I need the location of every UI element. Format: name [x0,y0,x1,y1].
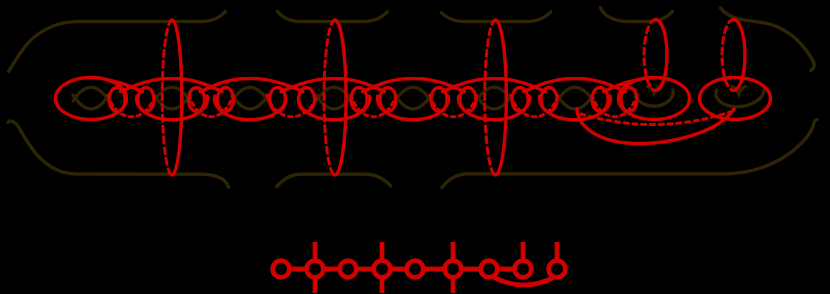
graph edge 6-7 [461,267,480,272]
graph node 3 [340,261,357,278]
short handle loop (front) at hole x=655.5 [656,20,667,91]
crossing arc from circle 1 over neck 1-2 [106,80,143,92]
attaching circle around hole 2 (lower cup) [137,96,208,120]
handle loop (back, dashed) at hole x=172 [162,20,172,175]
attaching circle around hole 6 (top, ends crossing necks) [443,79,546,92]
surface outline: bottom-left segment [8,121,229,187]
attaching circle around hole 5 (lower cup) [378,96,449,120]
graph tick below node x=453 [451,277,456,293]
hole 1 [73,87,109,101]
attaching circle around hole 4 (lower cup) [299,96,370,120]
graph node 2 [307,261,324,278]
linking ring at neck 6-7 right [541,88,557,112]
attaching circle around hole 7 (lower cup) [540,96,611,120]
graph node 5 [407,261,424,278]
attaching circle around hole 8 [619,78,690,120]
graph tick below node x=315 [313,277,318,293]
short handle loop (back, dashed) at hole x=655.5 [644,20,655,91]
short handle loop (front) at hole x=733.5 [734,20,745,91]
graph arc node7 to node9 [493,277,554,286]
surface outline: top segment 2 [277,12,387,22]
dashed back arc at neck 2-3 [189,95,233,117]
graph edge 7-8 [497,267,514,272]
handle loop (front) at hole x=172 [172,20,182,175]
linking ring at neck 3-4 right [299,88,315,112]
linking ring at neck 3-4 left [270,88,286,112]
graph tick above node x=382 [380,242,385,261]
handle loop (back, dashed) at hole x=335 [324,20,335,175]
graph node 9 [549,261,566,278]
hole 4 [316,87,352,101]
hole 9 [716,90,764,107]
linking ring at neck 7-8 right [621,88,637,112]
graph edge 2-3 [323,267,339,272]
hole 6 [476,87,512,101]
linking ring at neck 7-8 left [592,88,608,112]
attaching circle around hole 2 (top, ends crossing necks) [121,79,223,92]
dashed back arc at neck 1-2 [108,95,155,117]
surface outline: right cap bottom piece [442,120,817,188]
surface outline: top-left segment [9,12,226,72]
linking ring at neck 1-2 left [109,88,125,112]
graph tick above node x=315 [313,242,318,261]
dashed back arc at neck 6-7 [511,95,558,117]
linking ring at neck 2-3 left [189,88,205,112]
graph node 7 [481,261,498,278]
attaching circle around hole 7 (top, ends crossing necks) [524,79,626,92]
graph tick above node x=523 [521,242,526,261]
graph edge 4-5 [390,267,406,272]
linking ring at neck 5-6 left [431,88,447,112]
graph edge 3-4 [356,267,373,272]
hole 3 [232,87,268,101]
hole 8 [636,90,674,106]
hole 5 [395,87,431,101]
crossing arc from circle 8 over neck 7-8 [604,80,640,92]
linking ring at neck 1-2 right [138,88,154,112]
linking ring at neck 4-5 right [380,88,396,112]
attaching circle around hole 1 [56,78,127,120]
handle loop (front) at hole x=495.5 [496,20,507,175]
hole 2 [154,87,190,101]
graph node 1 [273,261,290,278]
hole 7 [557,87,593,101]
dashed back arc at neck 5-6 [430,95,477,117]
attaching circle around hole 4 (top, ends crossing necks) [281,79,385,92]
linking ring at neck 2-3 right [218,88,234,112]
attaching circle around hole 6 (lower cup) [459,96,530,120]
surface outline: top segment 4 [600,8,672,22]
dashed back arc at neck 7-8 [592,95,637,117]
handle loop (front) at hole x=335 [335,20,346,175]
surface outline: bottom segment 2 [277,174,391,186]
attaching circle around hole 3 (lower cup) [215,96,286,120]
dashed back arc at neck 4-5 [351,95,396,117]
graph tick above node x=557 [555,242,560,261]
graph node 6 [445,261,462,278]
surface outline: top segment 3 [441,12,551,22]
linking ring at neck 5-6 right [460,88,476,112]
graph tick below node x=382 [380,277,385,293]
long circle linking holes 7 and 9 (back, dashed) [581,112,730,125]
attaching circle around hole 3 (top, ends crossing necks) [200,79,303,92]
attaching circle around hole 5 (top, ends crossing necks) [363,79,465,92]
graph node 8 [515,261,532,278]
attaching circle around hole 9 [700,78,771,120]
linking ring at neck 6-7 left [512,88,528,112]
graph node 4 [374,261,391,278]
long circle linking holes 7 and 9 (front) [577,109,734,144]
short handle loop (back, dashed) at hole x=733.5 [722,20,733,91]
graph edge 1-2 [289,267,306,272]
dashed back arc at neck 3-4 [267,95,317,117]
graph edge 5-6 [423,267,444,272]
handle loop (back, dashed) at hole x=495.5 [485,20,496,175]
surface outline: top-right segment into right cap [721,8,815,71]
linking ring at neck 4-5 left [351,88,367,112]
graph tick above node x=453 [451,242,456,261]
